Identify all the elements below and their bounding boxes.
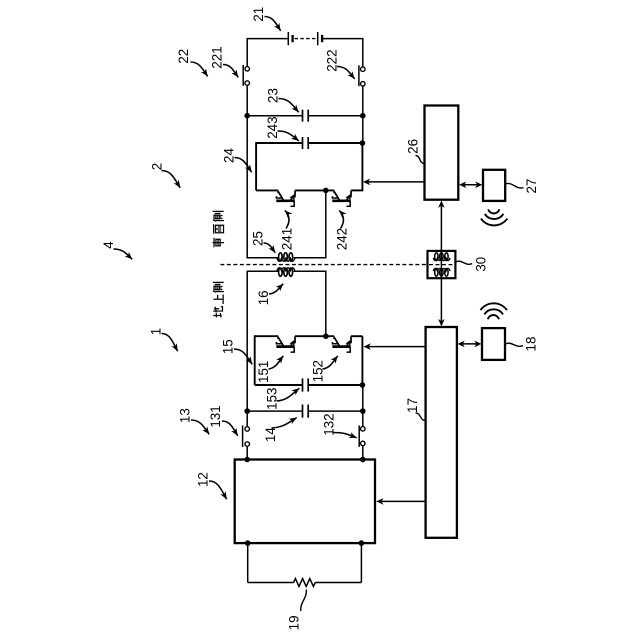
radio waves below 27 — [488, 209, 499, 213]
switch 222 blade — [358, 65, 360, 86]
signal coupler box 30 — [428, 251, 456, 278]
communication unit block 18 — [482, 328, 505, 360]
inverter 15 top edge seg3 — [351, 335, 363, 337]
capacitor 153 / box 15 bottom edge right — [309, 384, 363, 386]
capacitor 14 right plate — [307, 405, 309, 418]
node at right rail / capacitor 243 — [360, 140, 366, 146]
resistor 19 zigzag — [294, 579, 316, 587]
capacitor 153 right plate — [307, 378, 309, 391]
capacitor 23 left plate — [302, 110, 304, 122]
svg-text:30: 30 — [474, 257, 489, 272]
svg-text:151: 151 — [256, 361, 271, 383]
rectifier 24 left edge — [255, 142, 257, 190]
box 30 vertical line through — [440, 251, 442, 278]
node block 12 top right — [360, 457, 366, 463]
svg-text:24: 24 — [221, 148, 236, 163]
battery 21 wire right — [323, 38, 363, 40]
capacitor 14 left plate — [302, 405, 304, 418]
svg-text:27: 27 — [524, 179, 539, 194]
capacitor 243 / box 24 top edge left — [256, 142, 302, 144]
wire resistor 19 right — [315, 582, 361, 584]
box 30 upper coil — [433, 258, 450, 261]
switch 131 blade — [242, 425, 244, 447]
double arrow 26 to 27 — [462, 184, 480, 186]
wire from coil 16 to node on box 15 — [294, 271, 326, 336]
wire coil 16 left lead — [247, 270, 278, 272]
svg-text:22: 22 — [176, 49, 191, 64]
node block 12 top left — [244, 457, 250, 463]
controller block 17 — [426, 327, 457, 538]
svg-text:23: 23 — [266, 88, 281, 103]
svg-text:153: 153 — [264, 388, 279, 410]
rectifier 24 bottom edge seg2 — [295, 189, 334, 191]
switch 222 contact circle top — [361, 67, 366, 72]
svg-text:26: 26 — [405, 139, 420, 154]
svg-text:15: 15 — [220, 339, 235, 354]
node block 12 bottom left — [245, 540, 251, 546]
wire from node to coil 25 — [294, 190, 326, 257]
rectifier 24 bottom edge seg3 — [351, 189, 363, 191]
svg-text:152: 152 — [311, 360, 326, 382]
wire right rail below box 15 — [362, 385, 364, 427]
wire resistor 19 left — [248, 582, 294, 584]
battery 21 cell1 long plate — [287, 32, 289, 45]
svg-text:18: 18 — [524, 337, 539, 352]
dashed boundary line between vehicle side and ground side — [220, 264, 455, 266]
battery 21 cell2 short plate — [321, 35, 323, 42]
svg-text:221: 221 — [209, 46, 224, 68]
svg-text:222: 222 — [324, 49, 339, 71]
wire left rail top segment — [246, 38, 248, 67]
wire left rail to block 12 — [246, 446, 248, 459]
controller block 26 — [425, 106, 459, 200]
switch 131 contact circle top — [245, 427, 250, 432]
wire coil 25 left lead — [247, 257, 278, 259]
switch 221 blade — [242, 65, 244, 86]
inverter 15 top edge seg1 — [255, 335, 279, 337]
node at left rail / capacitor 23 — [244, 113, 250, 119]
svg-text:241: 241 — [280, 228, 295, 250]
inverter 15 left edge — [254, 335, 256, 385]
coil 25 — [277, 258, 295, 261]
capacitor 23 wire right — [309, 115, 363, 117]
svg-text:12: 12 — [196, 472, 211, 487]
inverter 15 right edge — [361, 336, 363, 385]
svg-text:243: 243 — [265, 116, 280, 138]
wire left rail ground side — [246, 271, 248, 427]
arrow line 26 to rectifier 24 — [366, 181, 424, 183]
battery 21 wire left — [247, 38, 287, 40]
switch 132 contact circle top — [361, 427, 366, 432]
wire left rail to coil 25 — [246, 85, 248, 258]
transistor 152 — [333, 337, 335, 340]
capacitor 243 left plate — [302, 137, 304, 149]
wire block 12 bottom right up — [360, 543, 362, 582]
svg-text:2: 2 — [149, 163, 164, 170]
transistor 242 — [333, 191, 335, 194]
svg-text:16: 16 — [256, 290, 271, 305]
transistor 151 — [277, 337, 279, 340]
capacitor 153 left plate — [302, 378, 304, 391]
switch 132 blade — [358, 425, 360, 447]
rectifier 24 bottom edge seg1 — [256, 189, 278, 191]
node at left rail / capacitor 14 — [244, 408, 250, 414]
svg-text:131: 131 — [208, 405, 223, 427]
svg-text:17: 17 — [405, 398, 420, 413]
battery 21 cell1 short plate — [291, 35, 293, 42]
node on box 24 bottom edge — [323, 188, 329, 194]
svg-text:14: 14 — [263, 427, 278, 442]
wire right rail top segment — [362, 38, 364, 67]
capacitor 14 wire right — [309, 410, 363, 412]
capacitor 23 right plate — [307, 110, 309, 122]
svg-text:13: 13 — [178, 408, 193, 423]
communication unit block 27 — [483, 170, 505, 201]
capacitor 153 / box 15 bottom edge left — [255, 384, 302, 386]
capacitor 243 right plate — [307, 137, 309, 149]
wire block 12 bottom left down — [247, 543, 249, 582]
node at right rail / capacitor 14 — [360, 408, 366, 414]
svg-text:4: 4 — [101, 241, 116, 249]
arrow line between 26 and 17 through 30 — [440, 204, 442, 323]
battery 21 cell2 long plate — [317, 32, 319, 45]
label vehicle side (kanji 車両側) — [213, 238, 225, 248]
coil 16 — [277, 268, 295, 271]
arrow line 17 to block 12 — [379, 500, 425, 502]
switch 221 contact circle top — [245, 67, 250, 72]
switch 221 contact circle bottom — [245, 81, 250, 86]
svg-text:25: 25 — [251, 231, 266, 246]
node at right rail / capacitor 153 — [360, 382, 366, 388]
transistor 241 — [277, 191, 279, 194]
arrow line 17 to inverter 15 — [367, 346, 426, 348]
switch 222 contact circle bottom — [361, 82, 366, 87]
wire right rail to capacitor nodes — [362, 86, 364, 143]
svg-text:21: 21 — [251, 7, 266, 22]
switch 132 contact circle bottom — [361, 441, 366, 446]
svg-text:242: 242 — [334, 228, 349, 250]
box 30 lower coil — [433, 268, 450, 271]
rectifier 24 right edge — [361, 143, 363, 190]
capacitor 23 wire left — [247, 115, 302, 117]
svg-text:1: 1 — [149, 328, 164, 335]
wire right rail to block 12 — [362, 446, 364, 460]
svg-text:19: 19 — [287, 615, 302, 630]
node block 12 bottom right — [359, 540, 365, 546]
radio waves above 18 — [488, 315, 499, 319]
battery 21 dashed link — [295, 38, 317, 40]
capacitor 14 wire left — [247, 410, 302, 412]
node at right rail / capacitor 23 — [360, 113, 366, 119]
inverter 15 top edge seg2 — [295, 335, 334, 337]
label ground side (kanji 地上側) — [213, 307, 222, 318]
power supply block 12 — [235, 460, 375, 544]
node on box 15 top edge — [323, 333, 329, 339]
double arrow 17 to 18 — [460, 343, 479, 345]
capacitor 243 / box 24 top edge right — [309, 142, 363, 144]
dashed line inside box 30 — [429, 264, 454, 266]
switch 131 contact circle bottom — [245, 442, 250, 447]
